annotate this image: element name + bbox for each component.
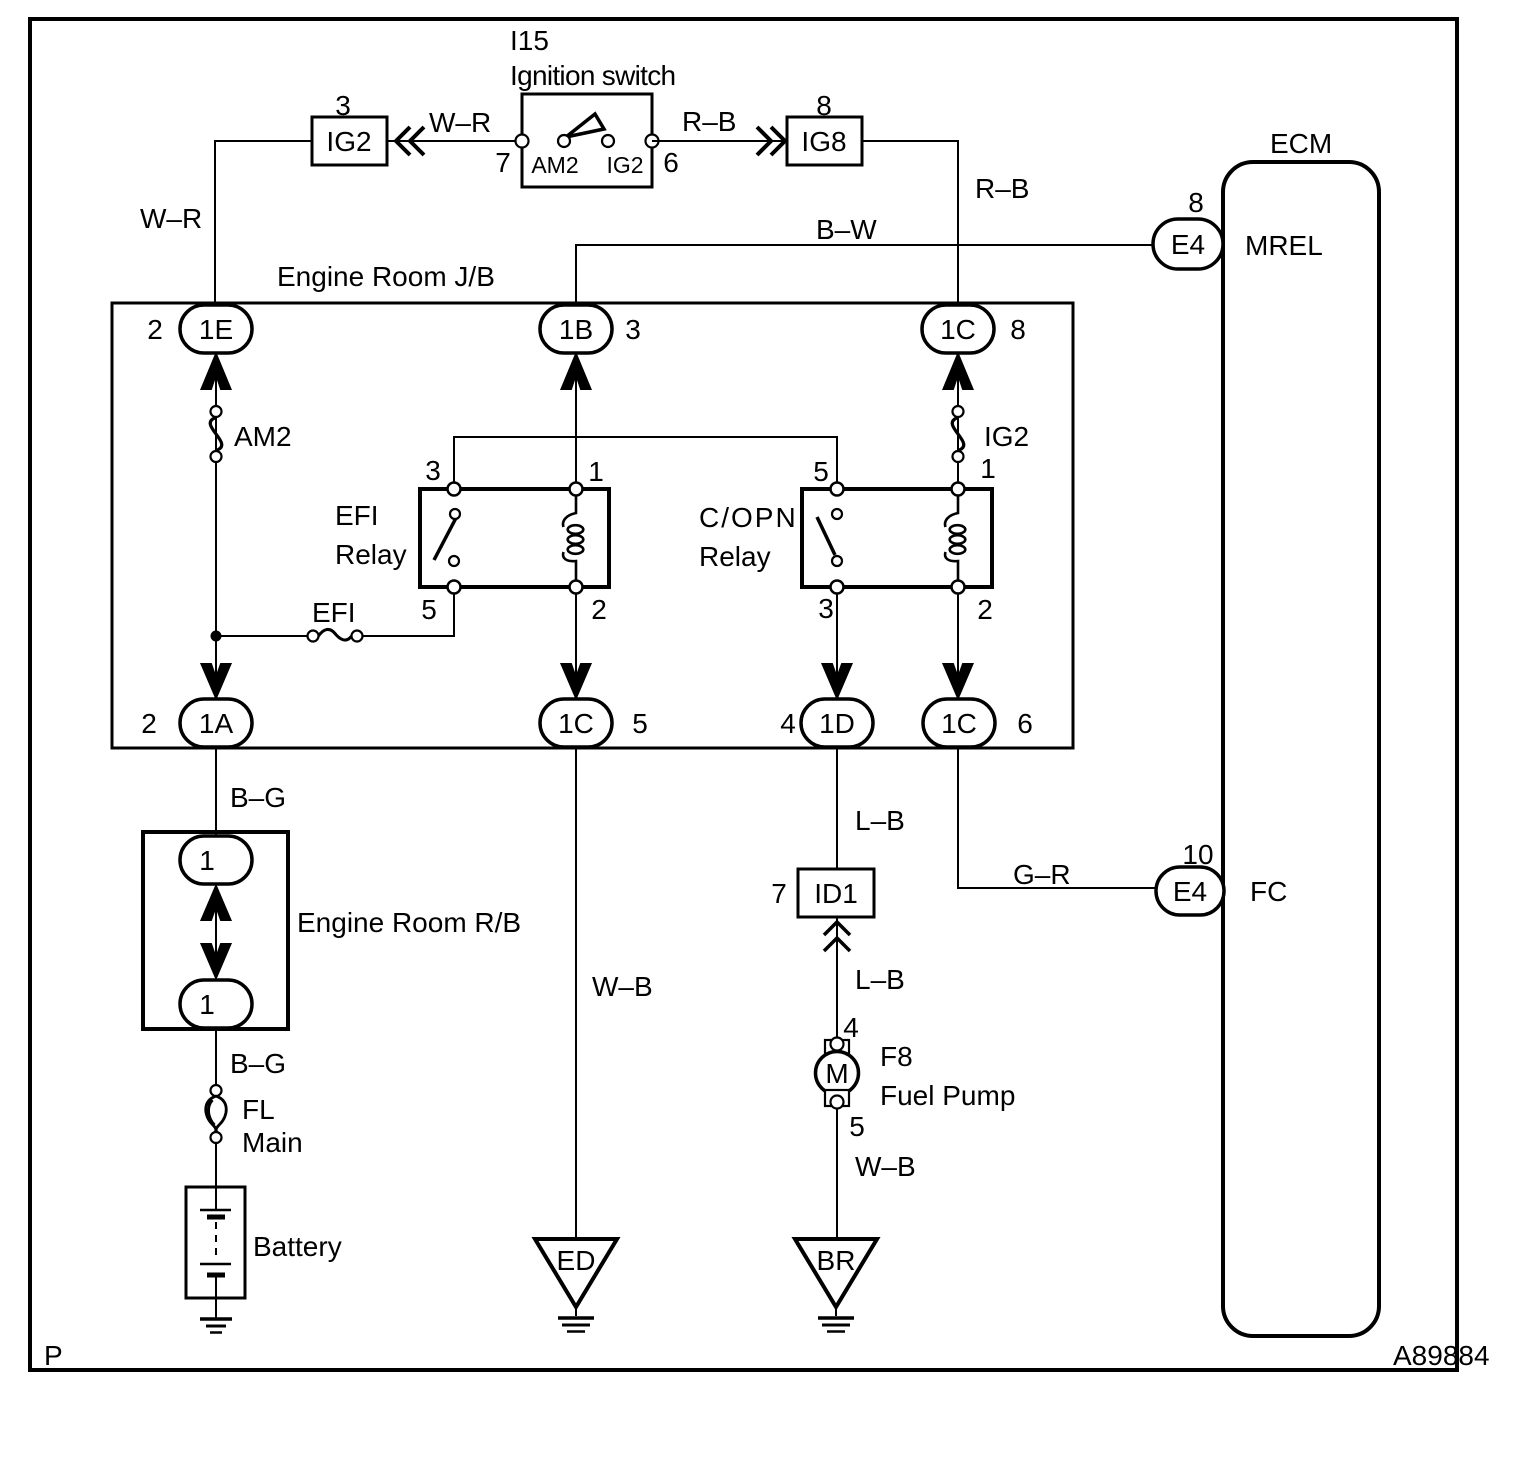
svg-text:W–R: W–R: [429, 107, 491, 138]
svg-text:2: 2: [147, 314, 163, 345]
connector E4 pin 8 MREL: [1153, 187, 1323, 269]
svg-text:2: 2: [141, 708, 157, 739]
svg-text:10: 10: [1182, 839, 1213, 870]
connector arrow down at 1C(6): [944, 664, 973, 698]
svg-text:B–G: B–G: [230, 782, 286, 813]
pin 2: [570, 581, 583, 594]
svg-text:1E: 1E: [199, 314, 233, 345]
svg-text:4: 4: [780, 708, 796, 739]
svg-text:C/OPN: C/OPN: [699, 502, 798, 533]
connector arrow down at 1A: [202, 664, 231, 698]
svg-text:1: 1: [980, 453, 996, 484]
relay EFI: [335, 455, 609, 625]
wire from C/OPN pin 2 down to 1C(6): [957, 593, 959, 699]
svg-text:ID1: ID1: [814, 878, 858, 909]
wire W-B from fuel pump to BR ground: [836, 1109, 838, 1239]
connector 1C pin 8: [922, 305, 1026, 353]
svg-text:E4: E4: [1173, 876, 1207, 907]
svg-text:1: 1: [199, 989, 215, 1020]
SECTION: bottom: [143, 747, 1287, 1333]
svg-text:5: 5: [813, 456, 829, 487]
wire arrow double chevron up: [824, 922, 850, 951]
svg-text:R–B: R–B: [975, 173, 1029, 204]
wire W-R left segment to vertical drop: [215, 141, 312, 305]
svg-text:FL: FL: [242, 1094, 275, 1125]
svg-text:1A: 1A: [199, 708, 234, 739]
coil inside EFI relay: [563, 495, 583, 581]
svg-text:BR: BR: [817, 1245, 856, 1276]
svg-text:MREL: MREL: [1245, 230, 1323, 261]
connector 1A pin 2: [141, 699, 252, 747]
svg-text:7: 7: [771, 878, 787, 909]
wire link from EFI relay pin 3 to C/OPN relay pin 5: [454, 437, 837, 483]
svg-text:IG2: IG2: [326, 126, 371, 157]
svg-text:1B: 1B: [559, 314, 593, 345]
connector 1C pin 6: [923, 699, 1033, 747]
wire arrow double chevron right: [757, 127, 785, 155]
ECM module: [1223, 162, 1379, 1336]
wire from 1C(8) down through IG2 fuse to C/OPN relay pin 1: [957, 353, 959, 483]
svg-text:FC: FC: [1250, 876, 1287, 907]
contact IG2: [602, 135, 614, 147]
svg-text:ECM: ECM: [1270, 128, 1332, 159]
svg-text:4: 4: [843, 1012, 859, 1043]
pin 1: [570, 483, 583, 496]
svg-text:W–R: W–R: [140, 203, 202, 234]
wire from EFI relay pin 2 down to 1C: [575, 593, 577, 699]
connector E4 pin 10 FC: [1156, 839, 1287, 915]
wire W-B from 1C(5) to ED ground: [575, 747, 577, 1239]
coil inside C/OPN relay: [945, 495, 965, 581]
svg-text:5: 5: [632, 708, 648, 739]
svg-text:A89884: A89884: [1393, 1340, 1490, 1371]
svg-text:7: 7: [495, 147, 511, 178]
connector 1 (top): [180, 836, 252, 884]
connector 1B pin 3: [540, 305, 641, 353]
wire L-B from 1D to ID1: [836, 747, 838, 869]
ground ED: [535, 1239, 617, 1332]
wire from C/OPN pin 3 down to 1D: [836, 593, 838, 699]
svg-text:1: 1: [199, 845, 215, 876]
wire to battery: [215, 1143, 217, 1187]
svg-text:EFI: EFI: [312, 597, 356, 628]
svg-text:AM2: AM2: [531, 152, 578, 178]
switch blade: [566, 114, 604, 137]
ground (battery): [200, 1319, 232, 1333]
svg-text:8: 8: [1010, 314, 1026, 345]
svg-text:2: 2: [591, 594, 607, 625]
svg-text:W–B: W–B: [855, 1151, 916, 1182]
pin 3: [448, 483, 461, 496]
pin 2: [952, 581, 965, 594]
svg-text:L–B: L–B: [855, 805, 905, 836]
wire from 1E down through AM2 fuse to 1A: [215, 353, 217, 699]
connector arrow up at 1B: [562, 354, 591, 389]
connector arrow down at 1C(5): [562, 664, 591, 698]
svg-text:5: 5: [849, 1111, 865, 1142]
wire from 1B down to EFI relay pin 1: [575, 353, 577, 483]
svg-text:1C: 1C: [558, 708, 594, 739]
svg-text:1C: 1C: [940, 314, 976, 345]
svg-text:EFI: EFI: [335, 500, 379, 531]
wire R-B from IG8 down to junction block 1C: [862, 141, 958, 305]
svg-text:8: 8: [1188, 187, 1204, 218]
pin 6: [646, 135, 659, 148]
connector 1D pin 4: [780, 699, 873, 747]
svg-text:3: 3: [335, 90, 351, 121]
fuse IG2: [952, 406, 1029, 462]
relay block Engine Room R/B: [143, 832, 521, 1029]
connector 1C pin 5: [540, 699, 648, 747]
switch contacts inside C/OPN relay: [817, 517, 835, 555]
wire B-W from 1B to ECM E4 MREL: [576, 245, 1153, 305]
connector arrow down inside R/B: [202, 944, 231, 978]
svg-text:Relay: Relay: [335, 539, 407, 570]
connector arrow down at 1D: [823, 664, 852, 698]
wire B-G from 1A to Engine Room R/B: [215, 747, 217, 836]
pin 5: [831, 483, 844, 496]
svg-text:E4: E4: [1171, 229, 1205, 260]
fusible link FL Main: [206, 1085, 303, 1158]
SECTION: jb: [112, 261, 1073, 748]
contact AM2: [558, 135, 570, 147]
wire G-R from 1C(6) to ECM E4 FC: [958, 747, 1156, 888]
svg-text:ED: ED: [557, 1245, 596, 1276]
svg-text:2: 2: [977, 594, 993, 625]
svg-text:G–R: G–R: [1013, 859, 1071, 890]
svg-text:Fuel Pump: Fuel Pump: [880, 1080, 1015, 1111]
pin 7: [516, 135, 529, 148]
svg-text:B–G: B–G: [230, 1048, 286, 1079]
ignition switch I15: [495, 25, 679, 187]
wire inside R/B: [215, 886, 217, 978]
svg-text:I15: I15: [510, 25, 549, 56]
connector 1E pin 2: [147, 305, 252, 353]
relay C/OPN: [699, 453, 996, 625]
connector IG8: [787, 117, 862, 165]
svg-text:5: 5: [421, 594, 437, 625]
wire arrow double chevron left: [396, 127, 424, 155]
pin 5: [448, 581, 461, 594]
fuse AM2: [210, 406, 291, 462]
wire L-B from fuel pump to ID1: [836, 917, 838, 1038]
svg-text:F8: F8: [880, 1041, 913, 1072]
svg-text:3: 3: [625, 314, 641, 345]
fuel pump F8: [816, 1012, 1016, 1142]
wire W-R from IG2 connector to ignition switch pin 7: [387, 140, 522, 142]
svg-text:W–B: W–B: [592, 971, 653, 1002]
svg-text:Relay: Relay: [699, 541, 771, 572]
svg-text:P: P: [44, 1340, 63, 1371]
svg-text:Battery: Battery: [253, 1231, 342, 1262]
switch contacts inside EFI relay: [434, 518, 456, 560]
svg-text:AM2: AM2: [234, 421, 292, 452]
wire B-G from R/B to FL Main: [215, 1028, 217, 1085]
svg-text:B–W: B–W: [816, 214, 877, 245]
svg-text:R–B: R–B: [682, 106, 736, 137]
junction block Engine Room J/B: [112, 303, 1073, 748]
battery: [186, 1187, 342, 1318]
pin 1: [952, 483, 965, 496]
wire from junction to EFI fuse and relay pin 5: [216, 635, 308, 637]
node junction dot: [211, 631, 222, 642]
svg-text:8: 8: [816, 90, 832, 121]
connector IG2: [312, 117, 387, 165]
pin 3: [831, 581, 844, 594]
ground BR: [795, 1239, 877, 1332]
connector arrow up at 1E: [202, 354, 231, 389]
connector 1 (bottom): [180, 980, 252, 1028]
svg-text:Engine Room R/B: Engine Room R/B: [297, 907, 521, 938]
svg-text:3: 3: [818, 593, 834, 624]
svg-text:Main: Main: [242, 1127, 303, 1158]
svg-text:1D: 1D: [819, 708, 855, 739]
svg-text:6: 6: [1017, 708, 1033, 739]
svg-text:3: 3: [425, 455, 441, 486]
wire R-B from pin 6 to IG8 connector: [652, 140, 787, 142]
connector ID1 pin 7: [771, 869, 874, 917]
svg-text:6: 6: [663, 147, 679, 178]
svg-text:Ignition switch: Ignition switch: [510, 60, 675, 91]
connector arrow up inside R/B: [202, 886, 231, 920]
svg-text:L–B: L–B: [855, 964, 905, 995]
svg-text:IG8: IG8: [801, 126, 846, 157]
svg-text:1C: 1C: [941, 708, 977, 739]
connector arrow up at 1C(8): [944, 354, 973, 389]
svg-text:IG2: IG2: [606, 152, 643, 178]
svg-text:1: 1: [588, 456, 604, 487]
fuse EFI: [308, 597, 363, 642]
svg-text:IG2: IG2: [984, 421, 1029, 452]
svg-text:Engine Room J/B: Engine Room J/B: [277, 261, 495, 292]
SECTION: top ignition: [140, 25, 1379, 1336]
svg-text:M: M: [825, 1058, 848, 1089]
